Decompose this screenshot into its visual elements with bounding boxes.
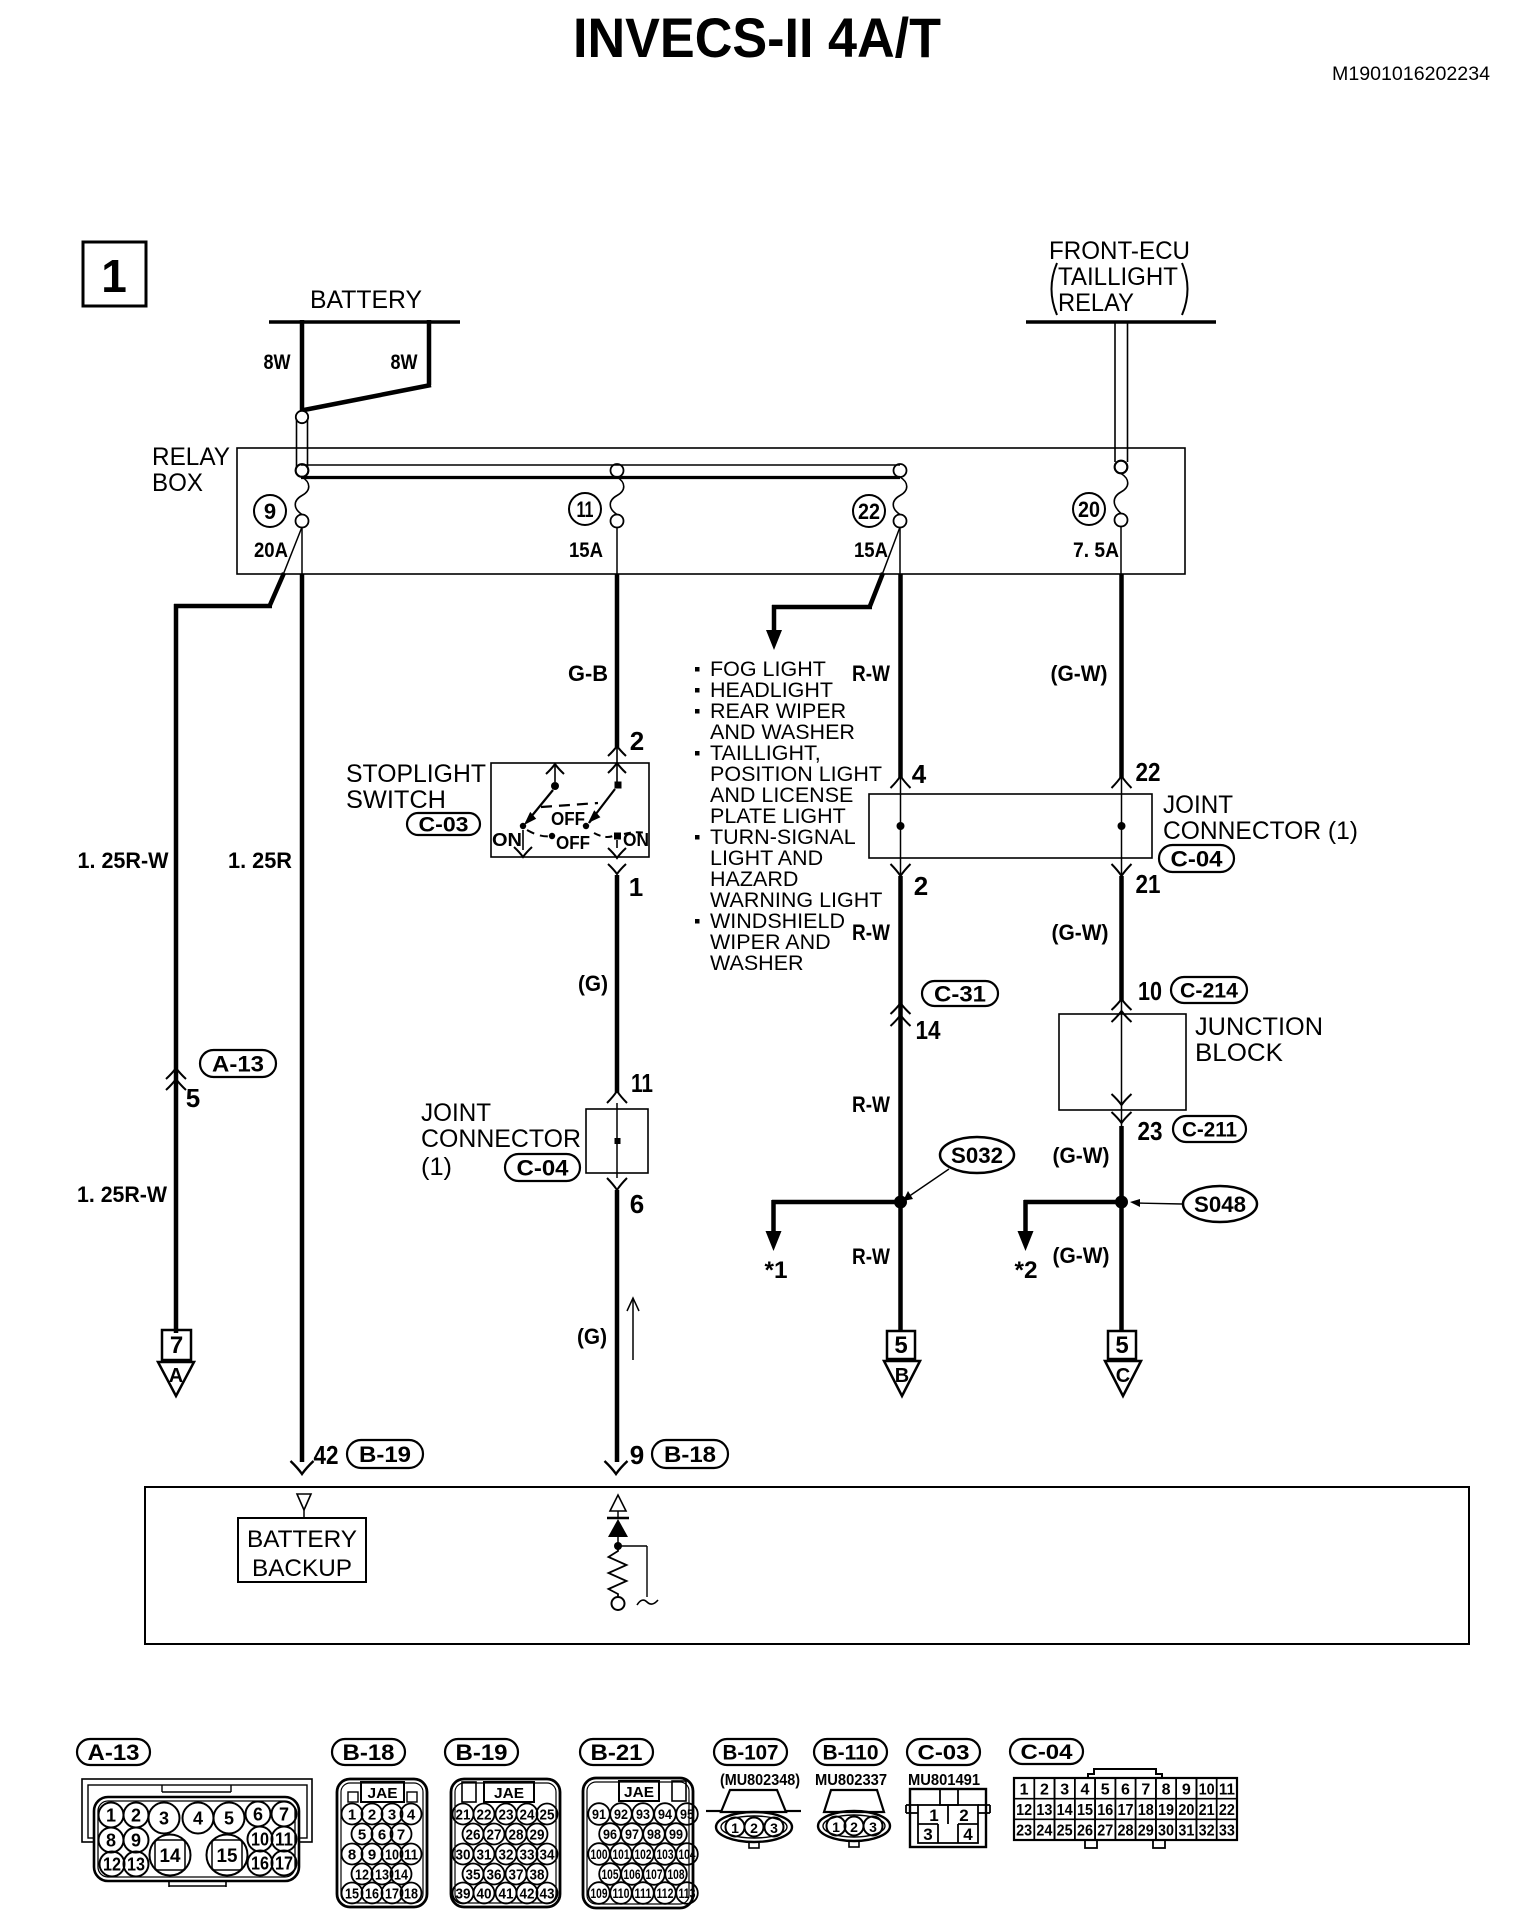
svg-text:1: 1 <box>629 872 643 902</box>
stoplight switch box <box>491 763 649 857</box>
terminal box 7 <box>162 1330 191 1360</box>
svg-text:S032: S032 <box>951 1143 1003 1168</box>
svg-text:C-04: C-04 <box>517 1155 570 1180</box>
svg-text:93: 93 <box>636 1807 650 1822</box>
svg-text:41: 41 <box>499 1886 514 1903</box>
splice S032 <box>940 1137 1014 1173</box>
svg-text:23: 23 <box>1138 1116 1163 1146</box>
connector ref C-211 <box>1173 1116 1246 1142</box>
svg-text:101: 101 <box>613 1847 630 1862</box>
connector C-03 label <box>907 1739 980 1765</box>
battery backup input triangle <box>297 1494 311 1510</box>
svg-text:15A: 15A <box>569 539 603 562</box>
connector A-13 housing <box>82 1779 312 1842</box>
connector C-03 pin 2 chevrons <box>608 746 626 756</box>
svg-text:21: 21 <box>1136 869 1161 899</box>
connector B-21 label <box>580 1739 653 1765</box>
svg-text:3: 3 <box>869 1819 877 1835</box>
switch pole 2 ON contact <box>614 833 621 840</box>
joint connector exit chevron pin 6 <box>607 1178 627 1190</box>
svg-text:C-04: C-04 <box>1021 1741 1073 1764</box>
svg-text:5: 5 <box>186 1083 200 1113</box>
svg-text:32: 32 <box>499 1847 514 1864</box>
svg-text:(G-W): (G-W) <box>1053 1143 1110 1168</box>
svg-text:20: 20 <box>1178 1802 1194 1819</box>
svg-text:15: 15 <box>217 1846 238 1867</box>
svg-text:7: 7 <box>170 1332 183 1359</box>
svg-text:33: 33 <box>1219 1823 1235 1840</box>
svg-text:100: 100 <box>591 1847 608 1862</box>
svg-text:15A: 15A <box>854 539 888 562</box>
svg-text:2: 2 <box>750 1820 758 1836</box>
svg-text:24: 24 <box>520 1807 536 1824</box>
svg-text:97: 97 <box>625 1827 639 1842</box>
svg-text:B-21: B-21 <box>591 1740 643 1765</box>
svg-text:RELAY: RELAY <box>152 443 230 471</box>
junction node S048 <box>1115 1196 1128 1209</box>
svg-text:31: 31 <box>477 1847 492 1864</box>
splice S048 <box>1183 1186 1257 1222</box>
svg-text:CONNECTOR (1): CONNECTOR (1) <box>1163 817 1358 845</box>
svg-text:MU802337: MU802337 <box>815 1772 887 1789</box>
connector B-18 housing <box>337 1779 427 1907</box>
svg-text:14: 14 <box>160 1846 181 1867</box>
battery-to-relay-box connector <box>296 419 298 468</box>
svg-text:28: 28 <box>509 1827 524 1844</box>
svg-text:(G-W): (G-W) <box>1053 1243 1110 1268</box>
svg-text:1: 1 <box>832 1819 840 1835</box>
svg-text:11: 11 <box>577 497 594 522</box>
joint connector entry chevron G-W <box>1112 776 1132 788</box>
svg-text:SWITCH: SWITCH <box>346 786 446 814</box>
svg-text:2: 2 <box>1040 1781 1049 1798</box>
svg-text:5: 5 <box>224 1809 234 1829</box>
svg-text:13: 13 <box>1036 1802 1052 1819</box>
branch wire to coil <box>618 1545 647 1547</box>
joint connector (1) C-04 box wide <box>869 794 1152 858</box>
ground terminal circle <box>612 1597 625 1610</box>
svg-text:BATTERY: BATTERY <box>310 286 422 314</box>
connector ref C-214 <box>1171 977 1247 1003</box>
connector B-19 pins <box>453 1804 474 1825</box>
svg-text:TAILLIGHT: TAILLIGHT <box>1058 263 1178 291</box>
connector A-13 pins <box>99 1803 124 1828</box>
svg-text:17: 17 <box>275 1854 293 1874</box>
svg-text:1. 25R-W: 1. 25R-W <box>77 1182 167 1207</box>
svg-text:(G-W): (G-W) <box>1051 661 1108 686</box>
svg-text:C-03: C-03 <box>918 1742 970 1765</box>
svg-text:R-W: R-W <box>852 1092 890 1117</box>
svg-text:G-B: G-B <box>568 661 608 686</box>
svg-text:4: 4 <box>1081 1781 1090 1798</box>
svg-text:2: 2 <box>368 1807 376 1824</box>
svg-text:STOPLIGHT: STOPLIGHT <box>346 760 486 788</box>
wire G-B from fuse 11 <box>616 527 618 574</box>
svg-text:6: 6 <box>1121 1781 1130 1798</box>
svg-text:111: 111 <box>635 1886 652 1901</box>
svg-text:8W: 8W <box>264 351 291 374</box>
svg-text:23: 23 <box>1016 1823 1032 1840</box>
svg-text:22: 22 <box>1219 1802 1235 1819</box>
svg-text:9: 9 <box>630 1440 644 1470</box>
svg-text:17: 17 <box>1118 1802 1134 1819</box>
svg-text:108: 108 <box>668 1867 685 1882</box>
svg-text:4: 4 <box>193 1809 203 1829</box>
svg-text:4: 4 <box>912 759 927 789</box>
svg-text:91: 91 <box>592 1807 606 1822</box>
svg-text:39: 39 <box>456 1886 471 1903</box>
svg-text:JAE: JAE <box>624 1784 654 1801</box>
svg-text:34: 34 <box>540 1847 556 1864</box>
switch pole 1 terminal arrow <box>546 764 564 774</box>
wire R-W from fuse 22 <box>899 527 901 574</box>
ECU box <box>145 1487 1469 1644</box>
svg-text:11: 11 <box>1219 1781 1235 1798</box>
connector B-110 housing <box>824 1790 884 1812</box>
svg-text:4: 4 <box>407 1807 416 1824</box>
svg-text:A-13: A-13 <box>88 1740 140 1765</box>
svg-text:(MU802348): (MU802348) <box>720 1772 800 1789</box>
svg-text:2: 2 <box>959 1806 968 1825</box>
svg-text:14: 14 <box>916 1015 941 1045</box>
svg-text:7. 5A: 7. 5A <box>1073 539 1119 562</box>
svg-text:(1): (1) <box>421 1153 452 1181</box>
svg-text:10: 10 <box>251 1830 269 1850</box>
svg-text:JOINT: JOINT <box>421 1099 491 1127</box>
connector B-110 pins <box>827 1817 846 1836</box>
svg-text:3: 3 <box>923 1825 932 1844</box>
front-ECU to relay box wire <box>1114 322 1116 462</box>
connector B-18 label <box>332 1739 405 1765</box>
svg-text:11: 11 <box>404 1847 418 1864</box>
svg-text:WASHER: WASHER <box>710 951 804 975</box>
svg-text:1: 1 <box>1020 1781 1029 1798</box>
svg-text:3: 3 <box>1060 1781 1069 1798</box>
current direction arrow <box>632 1300 634 1360</box>
wire G below switch <box>615 875 620 1093</box>
connector crossing chevrons pin 14 <box>891 1003 911 1014</box>
svg-text:9: 9 <box>1182 1781 1191 1798</box>
svg-text:(G-W): (G-W) <box>1052 920 1109 945</box>
svg-text:8: 8 <box>348 1847 356 1864</box>
linkage dashes upper <box>541 803 598 807</box>
svg-text:7: 7 <box>397 1827 405 1844</box>
wire G to B-18 <box>615 1190 620 1462</box>
svg-text:11: 11 <box>275 1830 293 1850</box>
svg-text:12: 12 <box>1016 1802 1032 1819</box>
svg-text:22: 22 <box>1136 757 1161 787</box>
svg-text:1: 1 <box>106 1806 116 1826</box>
joint connector exit chevron pin 21 <box>1112 864 1132 876</box>
svg-text:20: 20 <box>1078 497 1100 522</box>
svg-text:BACKUP: BACKUP <box>252 1555 352 1582</box>
svg-text:104: 104 <box>679 1847 696 1862</box>
svg-text:99: 99 <box>669 1827 683 1842</box>
svg-text:21: 21 <box>456 1807 471 1824</box>
svg-text:6: 6 <box>378 1827 386 1844</box>
sheet marker 1 <box>83 242 146 306</box>
svg-text:7: 7 <box>279 1805 289 1825</box>
svg-text:38: 38 <box>530 1867 545 1884</box>
svg-text:C-03: C-03 <box>419 814 469 837</box>
connector ref C-04 <box>505 1154 580 1181</box>
svg-text:30: 30 <box>1158 1823 1174 1840</box>
wire from fuse 22 to accessory loads <box>882 527 900 575</box>
junction block exit chevrons <box>1112 1094 1132 1105</box>
svg-text:(G): (G) <box>578 971 608 996</box>
svg-text:8: 8 <box>106 1831 116 1851</box>
switch pole 1 blade <box>526 790 553 823</box>
svg-text:10: 10 <box>1199 1781 1215 1798</box>
svg-text:9: 9 <box>368 1847 376 1864</box>
svg-text:9: 9 <box>264 499 276 524</box>
svg-text:19: 19 <box>1158 1802 1174 1819</box>
connector crossing chevron pin 42 <box>291 1461 314 1474</box>
svg-text:112: 112 <box>657 1886 674 1901</box>
svg-text:B-19: B-19 <box>359 1442 411 1467</box>
svg-text:8: 8 <box>1162 1781 1171 1798</box>
svg-text:1: 1 <box>348 1807 356 1824</box>
svg-text:28: 28 <box>1118 1823 1134 1840</box>
svg-text:12: 12 <box>103 1855 121 1875</box>
connector B-19 label <box>445 1739 518 1765</box>
svg-text:96: 96 <box>603 1827 617 1842</box>
svg-text:15: 15 <box>1077 1802 1093 1819</box>
svg-text:43: 43 <box>540 1886 555 1903</box>
svg-text:ON: ON <box>623 830 649 850</box>
svg-text:17: 17 <box>385 1886 399 1903</box>
svg-text:BATTERY: BATTERY <box>247 1526 357 1553</box>
svg-text:98: 98 <box>647 1827 661 1842</box>
svg-text:C-31: C-31 <box>934 981 986 1006</box>
svg-text:C: C <box>1116 1365 1130 1387</box>
svg-text:25: 25 <box>1057 1823 1073 1840</box>
connector B-107 pins <box>726 1818 745 1837</box>
branch *2 <box>1024 1200 1121 1205</box>
svg-text:B: B <box>895 1365 909 1387</box>
fuse 20 7.5A <box>1115 461 1128 474</box>
svg-text:16: 16 <box>1097 1802 1113 1819</box>
svg-text:26: 26 <box>466 1827 481 1844</box>
connector B-21 housing <box>583 1778 693 1908</box>
svg-text:JOINT: JOINT <box>1163 791 1233 819</box>
svg-text:23: 23 <box>499 1807 514 1824</box>
svg-text:95: 95 <box>680 1807 694 1822</box>
svg-text:R-W: R-W <box>852 920 890 945</box>
svg-text:JAE: JAE <box>494 1785 524 1802</box>
svg-text:30: 30 <box>456 1847 471 1864</box>
svg-text:21: 21 <box>1199 1802 1215 1819</box>
destination triangle C <box>1105 1361 1141 1396</box>
input triangle pin 9 <box>610 1495 626 1511</box>
svg-text:105: 105 <box>602 1867 619 1882</box>
svg-text:12: 12 <box>355 1867 369 1884</box>
connector ref B-18 <box>652 1440 728 1468</box>
svg-text:22: 22 <box>477 1807 492 1824</box>
svg-text:18: 18 <box>1138 1802 1154 1819</box>
connector B-110 label <box>814 1739 887 1765</box>
wire 1.25R-W from fuse 9 <box>283 527 302 575</box>
bus bar <box>301 464 900 466</box>
svg-text:33: 33 <box>520 1847 535 1864</box>
svg-text:14: 14 <box>1057 1802 1073 1819</box>
wire G-W from fuse 20 <box>1120 526 1122 574</box>
joint connector (1) C-04 box <box>586 1109 648 1173</box>
svg-text:110: 110 <box>613 1886 630 1901</box>
destination triangle B <box>884 1361 920 1396</box>
svg-text:8W: 8W <box>391 351 418 374</box>
svg-text:5: 5 <box>894 1332 907 1359</box>
joint connector (1) exit chevron pin 2 <box>891 864 911 876</box>
svg-text:C-214: C-214 <box>1180 980 1238 1003</box>
svg-text:3: 3 <box>388 1807 396 1824</box>
svg-text:40: 40 <box>477 1886 492 1903</box>
svg-text:22: 22 <box>858 499 880 524</box>
svg-text:25: 25 <box>540 1807 555 1824</box>
diode <box>607 1517 629 1520</box>
svg-text:18: 18 <box>404 1886 418 1903</box>
svg-text:27: 27 <box>1097 1823 1113 1840</box>
svg-text:2: 2 <box>131 1806 141 1826</box>
svg-text:37: 37 <box>509 1867 524 1884</box>
branch *1 <box>772 1200 900 1205</box>
joint connector chevron <box>607 1091 627 1103</box>
fuse 22 15A <box>894 464 907 477</box>
svg-text:9: 9 <box>131 1831 141 1851</box>
svg-text:5: 5 <box>1101 1781 1110 1798</box>
svg-text:C-211: C-211 <box>1182 1119 1237 1142</box>
svg-text:36: 36 <box>487 1867 502 1884</box>
svg-text:JAE: JAE <box>368 1785 398 1802</box>
svg-text:B-18: B-18 <box>664 1442 716 1467</box>
svg-text:*2: *2 <box>1015 1257 1038 1284</box>
svg-text:1: 1 <box>929 1806 938 1825</box>
connector C-03 housing <box>910 1789 986 1847</box>
svg-text:2: 2 <box>630 726 644 756</box>
connector B-107 label <box>714 1739 787 1765</box>
svg-text:32: 32 <box>1199 1823 1215 1840</box>
svg-text:2: 2 <box>850 1819 858 1835</box>
svg-text:13: 13 <box>127 1855 145 1875</box>
svg-text:RELAY: RELAY <box>1058 289 1134 317</box>
svg-text:(G): (G) <box>577 1324 607 1349</box>
svg-text:BOX: BOX <box>152 469 203 497</box>
terminal box 5 (C) <box>1108 1331 1136 1359</box>
wire R-W to terminal <box>898 1202 903 1331</box>
svg-text:16: 16 <box>251 1854 269 1874</box>
battery lead left 8W <box>300 320 305 411</box>
svg-text:94: 94 <box>658 1807 672 1822</box>
svg-text:A: A <box>169 1365 183 1387</box>
svg-text:R-W: R-W <box>852 1244 890 1269</box>
linkage dashes lower <box>527 830 552 836</box>
svg-text:JUNCTION: JUNCTION <box>1195 1013 1323 1041</box>
svg-text:26: 26 <box>1077 1823 1093 1840</box>
svg-text:109: 109 <box>591 1886 608 1901</box>
svg-text:C-04: C-04 <box>1171 846 1224 871</box>
svg-text:CONNECTOR: CONNECTOR <box>421 1125 581 1153</box>
svg-text:1. 25R-W: 1. 25R-W <box>78 848 169 873</box>
connector B-107 housing <box>721 1790 786 1812</box>
junction node S032 <box>894 1196 907 1209</box>
svg-text:B-18: B-18 <box>343 1740 395 1765</box>
svg-text:35: 35 <box>466 1867 481 1884</box>
svg-text:20A: 20A <box>254 539 288 562</box>
switch pole 1 lower terminal <box>522 830 524 850</box>
svg-text:OFF: OFF <box>556 833 590 853</box>
svg-text:INVECS-II 4A/T: INVECS-II 4A/T <box>573 6 941 69</box>
svg-text:*1: *1 <box>765 1257 788 1284</box>
svg-text:MU801491: MU801491 <box>908 1772 980 1789</box>
svg-text:42: 42 <box>314 1440 339 1470</box>
connector ref B-19 <box>347 1440 423 1468</box>
connector C-04 housing <box>1088 1769 1162 1778</box>
svg-text:6: 6 <box>630 1189 644 1219</box>
svg-text:107: 107 <box>646 1867 663 1882</box>
connector crossing chevron pin 9 <box>605 1461 628 1474</box>
fuse 9 20A <box>296 464 309 477</box>
svg-text:B-19: B-19 <box>456 1740 508 1765</box>
svg-text:31: 31 <box>1178 1823 1194 1840</box>
svg-text:5: 5 <box>358 1827 366 1844</box>
switch pole 2 blade <box>589 789 615 823</box>
resistor <box>609 1546 627 1597</box>
svg-text:7: 7 <box>1141 1781 1150 1798</box>
svg-text:5: 5 <box>1115 1332 1128 1359</box>
connector C-03 pin 1 chevrons <box>608 848 626 858</box>
svg-text:27: 27 <box>487 1827 502 1844</box>
svg-text:1: 1 <box>101 250 127 302</box>
svg-text:92: 92 <box>614 1807 628 1822</box>
svg-text:13: 13 <box>375 1867 389 1884</box>
svg-text:3: 3 <box>770 1820 778 1836</box>
svg-text:2: 2 <box>914 871 928 901</box>
svg-text:6: 6 <box>253 1805 263 1825</box>
joint connector (1) entry chevron R-W <box>891 776 911 788</box>
svg-text:11: 11 <box>631 1068 653 1098</box>
svg-text:113: 113 <box>679 1886 696 1901</box>
wire G-W to terminal <box>1119 1202 1124 1331</box>
svg-text:1. 25R: 1. 25R <box>228 848 292 873</box>
connector A-13 label <box>77 1739 150 1765</box>
svg-text:FRONT-ECU: FRONT-ECU <box>1049 237 1190 265</box>
svg-text:R-W: R-W <box>852 661 890 686</box>
node <box>614 1542 622 1550</box>
svg-text:A-13: A-13 <box>212 1051 264 1076</box>
connector crossing A-13 chevrons <box>166 1068 186 1079</box>
svg-text:BLOCK: BLOCK <box>1195 1039 1283 1067</box>
svg-text:29: 29 <box>530 1827 545 1844</box>
svg-text:14: 14 <box>394 1867 409 1884</box>
connector ref C-03 <box>407 813 480 835</box>
connector B-19 housing <box>451 1779 560 1907</box>
svg-text:B-107: B-107 <box>723 1742 779 1765</box>
svg-text:29: 29 <box>1138 1823 1154 1840</box>
accessory load list <box>695 667 700 672</box>
svg-text:OFF: OFF <box>551 809 585 829</box>
svg-text:1: 1 <box>731 1820 739 1836</box>
svg-text:102: 102 <box>635 1847 652 1862</box>
connector ref A-13 <box>200 1050 276 1077</box>
svg-text:M1901016202234: M1901016202234 <box>1332 64 1490 85</box>
svg-text:10: 10 <box>1138 976 1162 1006</box>
switch pole 2 contact <box>615 782 622 789</box>
battery backup <box>238 1518 366 1582</box>
svg-text:3: 3 <box>159 1809 169 1829</box>
wire 1.25R from fuse 9 <box>301 527 303 574</box>
connector ref C-04 right <box>1159 845 1234 872</box>
svg-text:42: 42 <box>520 1886 535 1903</box>
